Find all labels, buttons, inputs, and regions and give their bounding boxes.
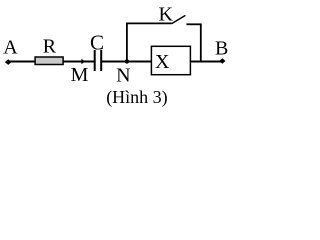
- current direction arrow at M: [81, 59, 85, 65]
- wire capacitor to box X: [101, 61, 151, 63]
- svg-text:N: N: [116, 64, 130, 86]
- wire right riser down: [200, 24, 202, 61]
- wire switch right segment: [187, 23, 202, 25]
- svg-text:B: B: [215, 37, 228, 59]
- node N junction dot: [125, 59, 129, 63]
- svg-text:C: C: [90, 30, 104, 54]
- wire A to resistor: [8, 61, 35, 63]
- node B: [219, 58, 225, 64]
- svg-text:K: K: [159, 3, 174, 25]
- capacitor C left plate: [94, 50, 96, 71]
- box X: [151, 46, 190, 74]
- wire box X to node B: [191, 61, 222, 63]
- node A: [5, 59, 12, 65]
- resistor R: [35, 57, 63, 65]
- svg-text:A: A: [3, 37, 18, 59]
- switch K blade: [172, 15, 186, 23]
- svg-text:R: R: [43, 36, 57, 58]
- svg-text:(Hình 3): (Hình 3): [106, 87, 168, 108]
- svg-text:M: M: [71, 64, 89, 86]
- svg-text:X: X: [155, 51, 170, 73]
- wire top from riser to switch: [126, 22, 172, 24]
- capacitor C right plate: [100, 50, 102, 71]
- wire left riser N up: [126, 23, 128, 61]
- wire resistor to capacitor: [64, 61, 95, 63]
